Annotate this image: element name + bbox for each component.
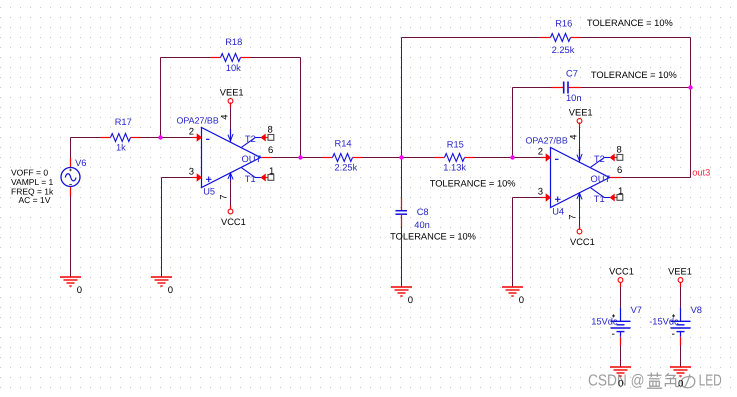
U4 pin 2 inverting input — [541, 157, 547, 159]
svg-text:T2: T2 — [594, 154, 605, 164]
svg-text:V7: V7 — [631, 305, 642, 315]
wire R14 to R15 — [363, 157, 435, 159]
svg-text:1k: 1k — [116, 143, 126, 153]
U5 pin 3 non-inverting input — [192, 177, 198, 179]
svg-text:C8: C8 — [417, 207, 429, 217]
svg-text:OUT: OUT — [591, 174, 611, 184]
svg-text:7: 7 — [219, 195, 230, 200]
svg-text:7: 7 — [568, 215, 579, 220]
svg-text:0: 0 — [519, 295, 524, 306]
svg-text:T1: T1 — [245, 174, 256, 184]
wire C7 right segment — [581, 87, 691, 89]
svg-text:VEE1: VEE1 — [220, 88, 244, 98]
svg-text:C7: C7 — [566, 68, 578, 78]
U4 trim pin 8 T2 — [591, 154, 623, 168]
wire V8 bottom to ground — [680, 346, 682, 367]
watermark CJK glyph no — [681, 374, 695, 388]
wire R16 row right segment — [581, 37, 691, 39]
wire R18 right to corner — [251, 57, 301, 59]
svg-text:2.25k: 2.25k — [335, 163, 358, 173]
wire node up to R16 row — [401, 38, 403, 158]
svg-text:U5: U5 — [203, 187, 215, 197]
resistor R15 — [435, 154, 475, 162]
ground — [151, 277, 173, 296]
U5 trim pin 8 T2 — [242, 134, 274, 148]
wire U5 pin3 to ground — [162, 177, 193, 179]
svg-text:VCC1: VCC1 — [609, 267, 634, 277]
wire R17 to U5 pin2 — [141, 137, 193, 139]
U4 non-inverting + mark — [555, 198, 561, 200]
wire U4 VEE1 power — [579, 122, 581, 127]
junction — [298, 155, 302, 159]
svg-text:AC = 1V: AC = 1V — [19, 195, 51, 205]
svg-text:1.13k: 1.13k — [443, 163, 466, 173]
ground — [391, 287, 413, 306]
resistor R14 — [323, 154, 363, 162]
wire output feedback vertical — [690, 38, 692, 178]
svg-text:2: 2 — [538, 146, 543, 157]
svg-text:LED: LED — [699, 372, 722, 389]
svg-text:TOLERANCE = 10%: TOLERANCE = 10% — [430, 178, 516, 188]
svg-text:VCC1: VCC1 — [221, 217, 246, 227]
U4 trim pin 1 T1 — [591, 188, 623, 202]
svg-text:10k: 10k — [226, 63, 241, 73]
svg-text:4: 4 — [569, 134, 580, 139]
power flag VEE1 (V8) — [678, 278, 683, 283]
wire V7 bottom to ground — [620, 346, 622, 367]
wire U5 out to R14 — [272, 157, 323, 159]
U5 non-inverting + mark — [206, 178, 212, 180]
DC source V8 — [649, 305, 702, 346]
svg-text:U4: U4 — [552, 207, 564, 217]
U5 triangle body — [202, 128, 261, 188]
DC source V7 — [591, 305, 642, 346]
junction — [158, 135, 162, 139]
svg-text:1: 1 — [618, 186, 623, 197]
source V6 (VSIN) — [61, 158, 86, 197]
ground — [670, 367, 691, 390]
svg-text:2: 2 — [189, 126, 194, 137]
junction — [510, 155, 514, 159]
wire C8 top — [401, 158, 403, 198]
svg-text:0: 0 — [408, 295, 413, 306]
svg-text:TOLERANCE = 10%: TOLERANCE = 10% — [591, 70, 677, 80]
capacitor C8 — [396, 198, 408, 228]
svg-text:T2: T2 — [245, 134, 256, 144]
U4 inverting - mark — [555, 158, 559, 160]
svg-text:OPA27/BB: OPA27/BB — [177, 116, 219, 126]
op-amp U5 OPA27/BB — [177, 114, 275, 199]
svg-text:0: 0 — [618, 379, 623, 390]
watermark CJK glyph se — [665, 373, 678, 386]
svg-text:R14: R14 — [335, 139, 352, 149]
U5 inverting - mark — [206, 138, 210, 140]
svg-text:R16: R16 — [555, 18, 572, 28]
svg-text:OPA27/BB: OPA27/BB — [526, 136, 568, 146]
U5 pin 4 V- power pin — [228, 129, 233, 142]
svg-text:8: 8 — [617, 144, 622, 155]
wire C8 bottom to ground — [401, 227, 403, 287]
svg-text:0: 0 — [168, 285, 173, 296]
wire feedback right vertical — [300, 58, 302, 158]
resistor R16 — [541, 34, 581, 42]
power flag VEE1 (U4 top) — [569, 108, 593, 124]
U5 pin 2 inverting input — [192, 137, 198, 139]
svg-text:10n: 10n — [566, 93, 582, 103]
svg-text:-15Vdc: -15Vdc — [649, 317, 679, 327]
ground — [610, 367, 631, 390]
wire V7 top — [620, 282, 622, 287]
U4 pin 7 V+ power pin — [577, 193, 582, 201]
wire R17 row horizontal — [71, 137, 101, 139]
svg-text:VEE1: VEE1 — [668, 267, 692, 277]
svg-text:3: 3 — [189, 166, 194, 177]
resistor R17 — [101, 134, 141, 142]
svg-text:TOLERANCE = 10%: TOLERANCE = 10% — [390, 232, 476, 242]
svg-text:out3: out3 — [692, 168, 710, 178]
svg-text:T1: T1 — [594, 194, 605, 204]
svg-text:VEE1: VEE1 — [569, 108, 593, 118]
wire C7 left segment — [513, 87, 552, 89]
svg-text:R17: R17 — [115, 117, 132, 127]
svg-text:VOFF = 0: VOFF = 0 — [11, 167, 48, 177]
watermark CJK glyph lan — [647, 373, 662, 389]
wire U4 out to corner — [621, 177, 691, 179]
junction — [399, 155, 403, 159]
wire R15 to U4 pin2 — [475, 157, 542, 159]
svg-text:TOLERANCE = 10%: TOLERANCE = 10% — [587, 18, 673, 28]
capacitor C7 — [552, 82, 582, 94]
U5 trim pin 1 T1 — [242, 168, 274, 182]
svg-text:R18: R18 — [225, 37, 242, 47]
svg-text:0: 0 — [678, 379, 683, 390]
wire to R18 left — [161, 57, 211, 59]
svg-text:V8: V8 — [691, 305, 702, 315]
U5 pin 7 V+ power pin — [228, 173, 233, 181]
wire C7 branch down to pin2 node — [512, 88, 514, 158]
svg-text:V6: V6 — [75, 158, 86, 168]
wire R16 row left segment — [402, 37, 541, 39]
wire V6 top to R17 row — [70, 138, 72, 159]
U4 pin 6 output — [610, 177, 621, 179]
wire U4 VCC1 power — [579, 201, 581, 226]
ground — [502, 287, 524, 306]
power flag VCC1 (U5 bottom) — [221, 209, 246, 227]
wire V6 bottom to ground — [70, 197, 72, 277]
svg-text:VCC1: VCC1 — [570, 237, 595, 247]
svg-text:3: 3 — [538, 186, 543, 197]
V6 parameter text — [11, 167, 54, 204]
U5 pin 6 output — [261, 157, 272, 159]
svg-text:6: 6 — [268, 145, 273, 156]
svg-text:15Vdc: 15Vdc — [591, 317, 618, 327]
svg-text:4: 4 — [220, 114, 231, 119]
power flag VCC1 (V7) — [618, 278, 623, 283]
U4 pin 4 V- power pin — [577, 149, 582, 162]
wire U4 pin3 to ground — [513, 197, 542, 199]
op-amp U4 OPA27/BB — [526, 134, 624, 219]
svg-text:CSDN @: CSDN @ — [588, 372, 645, 389]
svg-text:6: 6 — [617, 165, 622, 176]
wire U5 VEE1 power — [230, 102, 232, 107]
svg-text:8: 8 — [268, 124, 273, 135]
svg-text:R15: R15 — [447, 139, 464, 149]
U4 triangle body — [551, 148, 610, 208]
junction — [688, 85, 692, 89]
svg-text:1: 1 — [269, 166, 274, 177]
wire feedback left vertical — [160, 58, 162, 138]
svg-text:2.25k: 2.25k — [552, 45, 575, 55]
svg-text:40n: 40n — [414, 220, 430, 230]
ground — [60, 277, 82, 296]
wire V8 top — [680, 282, 682, 287]
svg-text:OUT: OUT — [242, 154, 262, 164]
svg-text:0: 0 — [77, 285, 82, 296]
wire U5 VCC1 power — [230, 181, 232, 206]
power flag VCC1 (U4 bottom) — [570, 229, 595, 247]
U4 pin 3 non-inverting input — [541, 197, 547, 199]
resistor R18 — [211, 54, 251, 62]
power flag VEE1 (U5 top) — [220, 88, 244, 104]
